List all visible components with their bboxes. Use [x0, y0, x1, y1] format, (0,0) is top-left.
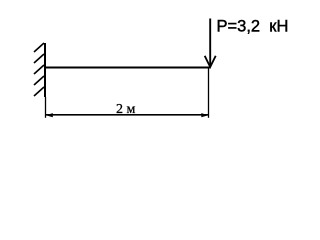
wall hatch stroke 2 [34, 54, 44, 63]
dimension right arrowhead [201, 113, 208, 117]
wall hatch stroke 5 [34, 87, 44, 96]
wall hatch stroke 4 [34, 76, 44, 85]
wall hatch stroke 3 [34, 65, 44, 74]
force arrowhead [205, 56, 216, 67]
wall hatch stroke 1 [34, 43, 44, 52]
svg-text:P=3,2 кН: P=3,2 кН [217, 17, 289, 35]
left extension line [45, 97, 47, 118]
svg-text:2 м: 2 м [116, 102, 136, 117]
beam [44, 67, 211, 69]
wall support vertical line [44, 43, 46, 97]
right extension line [208, 69, 210, 118]
dimension line [46, 114, 208, 116]
force arrow shaft P [209, 19, 211, 68]
dimension left arrowhead [46, 113, 53, 117]
